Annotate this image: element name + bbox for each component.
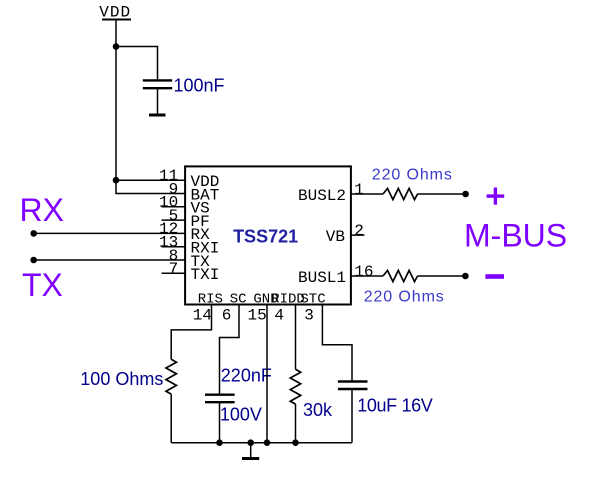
wire pin 1 to resistor (351, 193, 383, 195)
pin 10 stub (162, 206, 186, 208)
wire R3 to ground rail (170, 394, 172, 443)
node TX dot (30, 257, 37, 264)
pin 13 stub (162, 246, 186, 248)
wire R4 to ground rail (295, 404, 297, 443)
capacitor C3 10uF (338, 382, 368, 390)
ground below C1 (149, 114, 166, 117)
ground (242, 443, 259, 459)
node RX dot (30, 230, 37, 237)
svg-text:RX: RX (20, 192, 64, 228)
junction dot at VDD branch (113, 43, 120, 50)
label minus (485, 274, 504, 279)
pin 5 stub (162, 219, 186, 221)
wire RX input (34, 232, 185, 234)
junction dot R4 rail (292, 439, 299, 446)
power flag VDD (99, 4, 131, 22)
wire R1 to plus node (418, 193, 466, 195)
svg-text:220 Ohms: 220 Ohms (372, 167, 453, 184)
svg-text:16: 16 (354, 263, 373, 281)
wire C3 to ground rail (351, 389, 353, 443)
svg-text:6: 6 (222, 306, 232, 324)
wire branch to capacitor C1 (116, 47, 158, 80)
pin 7 stub (162, 272, 186, 274)
svg-text:100V: 100V (220, 404, 262, 424)
label plus (487, 188, 505, 205)
wire C2 to ground rail (219, 402, 221, 443)
wire pin 14 down and left (171, 305, 211, 360)
op-amp U1 TSS721 box (185, 166, 351, 304)
ground rail wire (171, 442, 352, 444)
wire pin 6 down and left (220, 305, 240, 394)
svg-text:TX: TX (22, 267, 63, 303)
wire to VDD pin 11 (116, 179, 185, 181)
resistor R3 100 Ohms (166, 359, 176, 394)
svg-text:VB: VB (326, 228, 345, 246)
junction dot C2 rail (216, 439, 223, 446)
svg-text:1: 1 (354, 181, 364, 199)
wire pin 3 down and right (322, 305, 352, 381)
junction dot ground stem (247, 439, 254, 446)
node minus dot (462, 273, 469, 280)
wire TX input (34, 259, 185, 261)
svg-text:RIS: RIS (198, 291, 223, 307)
svg-text:M-BUS: M-BUS (464, 218, 567, 254)
svg-text:220nF: 220nF (221, 365, 272, 385)
svg-text:15: 15 (248, 306, 267, 324)
svg-text:100nF: 100nF (174, 76, 225, 96)
wire R2 to minus node (418, 275, 466, 277)
wire pin 15 to ground rail (266, 305, 268, 443)
svg-text:BUSL1: BUSL1 (298, 269, 346, 287)
svg-text:TXI: TXI (191, 266, 220, 284)
svg-text:4: 4 (274, 306, 284, 324)
svg-text:SC: SC (230, 291, 247, 307)
junction dot pin15 rail (264, 439, 271, 446)
wire pin 4 down (295, 305, 297, 370)
svg-text:100 Ohms: 100 Ohms (80, 369, 163, 389)
svg-text:220 Ohms: 220 Ohms (364, 289, 445, 306)
wire VDD vertical to BAT pin 9 (116, 20, 185, 194)
resistor R1 220 Ohms top (383, 188, 417, 199)
svg-text:2: 2 (354, 222, 364, 240)
resistor R2 220 Ohms bottom (383, 270, 417, 281)
pin 2 stub (351, 234, 365, 236)
wire pin 16 to resistor (351, 275, 383, 277)
node plus dot (462, 191, 469, 198)
svg-text:7: 7 (169, 260, 179, 278)
capacitor C2 220nF (205, 395, 235, 403)
svg-text:BUSL2: BUSL2 (298, 187, 346, 205)
svg-text:TSS721: TSS721 (233, 226, 298, 246)
capacitor C1 100nF (143, 80, 172, 114)
resistor R4 30k (290, 369, 300, 404)
svg-text:30k: 30k (303, 400, 333, 420)
junction dot at pin 11 (113, 177, 120, 184)
svg-text:14: 14 (193, 306, 212, 324)
svg-text:3: 3 (304, 306, 314, 324)
svg-text:10uF 16V: 10uF 16V (357, 396, 433, 416)
